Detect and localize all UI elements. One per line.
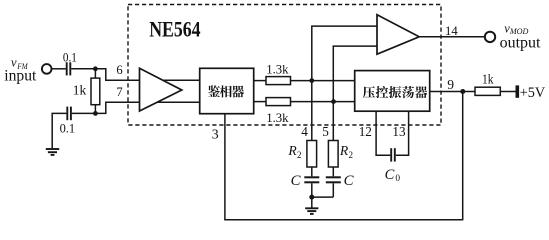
svg-text:12: 12 — [359, 124, 372, 139]
wire pin 4 riser to A2 upper input — [312, 26, 377, 140]
wire C1 to node A — [71, 68, 95, 70]
svg-text:4: 4 — [301, 124, 308, 139]
svg-text:R: R — [287, 143, 297, 158]
resistor R2 (pin 5 filter) — [328, 141, 338, 168]
svg-text:0: 0 — [395, 174, 400, 184]
svg-text:+5V: +5V — [520, 85, 546, 101]
wire pin 14 — [419, 36, 485, 38]
wire C2 to ground — [52, 113, 66, 148]
block U1a phase detector — [200, 68, 254, 113]
wire C4 to ground rail — [332, 183, 334, 197]
svg-text:2: 2 — [349, 150, 354, 160]
wire R5 to +5V — [500, 91, 515, 93]
label CJK ya-kong-zhen-dang-qi (VCO) — [363, 86, 428, 98]
wire node B to C2 — [72, 112, 96, 114]
wire PD lower output — [253, 101, 266, 103]
svg-text:1.3k: 1.3k — [266, 62, 289, 76]
input terminal — [42, 64, 52, 74]
block U1b VCO — [355, 71, 430, 112]
svg-text:1k: 1k — [73, 83, 87, 98]
output terminal — [485, 32, 495, 42]
wire R2 to C3 — [311, 167, 313, 176]
capacitor C3 — [304, 177, 319, 182]
op-amp A1 input amplifier — [140, 68, 182, 111]
wire bottom feedback rail — [224, 219, 463, 221]
node pin4 junction — [309, 78, 314, 83]
node A junction — [93, 66, 98, 71]
svg-text:3: 3 — [212, 126, 219, 141]
svg-text:0.1: 0.1 — [63, 51, 77, 65]
wire filter ground rail — [312, 196, 334, 198]
capacitor C1 0.1 (input coupling) — [67, 62, 71, 75]
label vMOD output — [500, 22, 541, 52]
IC U1 NE564 dashed boundary — [128, 5, 441, 126]
svg-text:1k: 1k — [482, 72, 494, 87]
ground GND2 — [305, 197, 318, 214]
svg-text:C: C — [291, 173, 301, 189]
svg-text:C: C — [385, 167, 395, 183]
svg-text:R: R — [339, 143, 349, 158]
wire pin 7 — [95, 102, 199, 113]
supply +5V terminal bar — [516, 85, 520, 97]
wire pin 5 riser to A2 lower input — [333, 46, 377, 140]
label R2 — [287, 143, 301, 160]
label C0 — [385, 167, 401, 184]
resistor R4 1.3k lower — [266, 98, 291, 106]
wire R2 to C4 — [332, 167, 334, 176]
svg-text:6: 6 — [116, 63, 122, 77]
capacitor C4 — [326, 177, 341, 182]
wire R4 to VCO input — [291, 101, 355, 103]
wire R3 to VCO input — [291, 80, 355, 82]
label CJK jian-xiang-qi (phase detector) — [208, 85, 244, 97]
wire PD upper output — [253, 80, 266, 82]
resistor R2 (pin 4 filter) — [307, 141, 317, 168]
svg-text:output: output — [500, 35, 541, 52]
node B junction — [93, 111, 98, 116]
svg-text:input: input — [4, 67, 37, 84]
wire pin 12 — [376, 111, 390, 155]
node pin5 junction — [331, 99, 336, 104]
wire pin 9 — [430, 91, 475, 93]
resistor R5 1k pull-up — [475, 87, 500, 95]
node filter ground junction — [309, 195, 314, 200]
wire right feedback riser — [462, 92, 464, 221]
wire pin 3 — [224, 113, 226, 220]
wire pin 13 — [396, 111, 409, 155]
svg-text:NE564: NE564 — [149, 16, 200, 41]
wire terminal to C1 — [52, 68, 66, 70]
node pin9 junction — [460, 89, 465, 94]
svg-text:1.3k: 1.3k — [266, 111, 289, 125]
wire pin 6 — [95, 69, 199, 80]
svg-text:2: 2 — [297, 150, 302, 160]
wire C3 to ground rail — [311, 183, 313, 197]
ground GND1 — [46, 149, 59, 155]
resistor R3 1.3k upper — [266, 77, 291, 85]
label R2 — [339, 143, 353, 160]
svg-text:C: C — [344, 173, 354, 189]
op-amp A2 output amplifier — [377, 15, 419, 55]
capacitor C2 0.1 (bias bypass) — [67, 107, 71, 121]
capacitor C0 — [391, 148, 395, 161]
svg-text:9: 9 — [447, 77, 454, 92]
svg-text:14: 14 — [445, 24, 458, 38]
svg-text:7: 7 — [116, 85, 122, 99]
resistor R1 1k — [91, 69, 100, 114]
svg-text:5: 5 — [322, 124, 329, 139]
svg-text:0.1: 0.1 — [60, 122, 76, 136]
svg-text:13: 13 — [392, 124, 406, 139]
node vFM input label — [4, 56, 37, 85]
